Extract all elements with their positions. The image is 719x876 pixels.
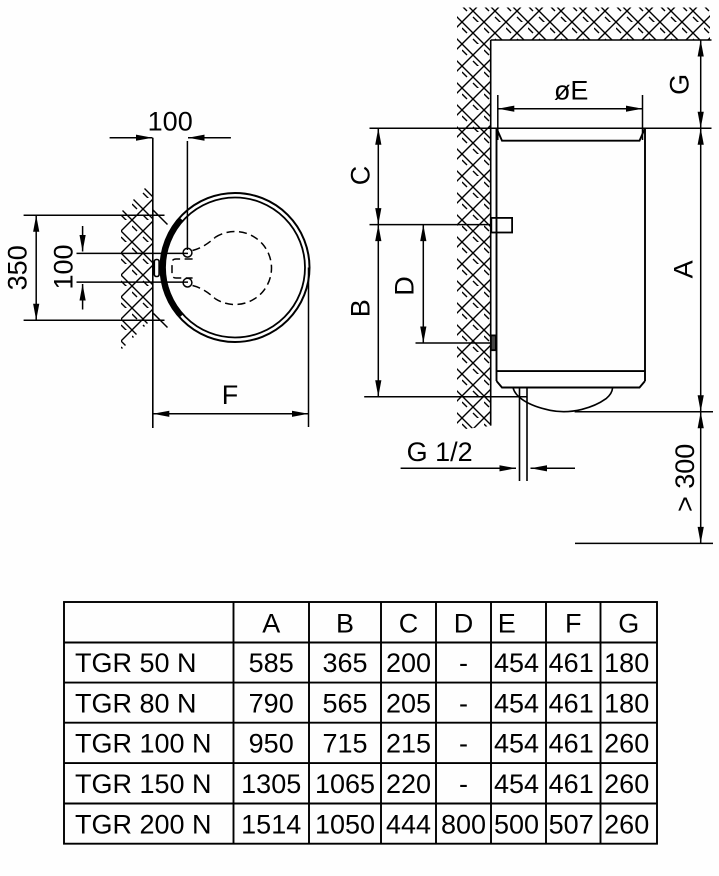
ceiling line: [491, 39, 712, 41]
svg-text:TGR 100 N: TGR 100 N: [75, 729, 212, 759]
svg-text:350: 350: [3, 245, 33, 290]
dimension >300: [670, 412, 701, 544]
dimension G: [665, 40, 701, 128]
svg-text:454: 454: [494, 688, 539, 718]
svg-text:100: 100: [148, 107, 193, 137]
svg-text:180: 180: [604, 688, 649, 718]
svg-text:260: 260: [604, 769, 649, 799]
floor line: [575, 542, 713, 544]
wall hatch (front view): [121, 180, 153, 350]
upper hook: [183, 248, 192, 257]
svg-text:1305: 1305: [241, 769, 301, 799]
dimension B: [346, 225, 379, 397]
upper fixing extension line: [370, 224, 492, 226]
dimension 100 (top, horizontal): [110, 107, 231, 251]
tank outer circle: [161, 193, 310, 342]
table row TGR 200 N: [75, 809, 649, 839]
dimension G 1/2: [401, 437, 575, 468]
svg-text:G: G: [665, 74, 695, 95]
svg-text:454: 454: [494, 729, 539, 759]
svg-text:B: B: [346, 299, 376, 317]
svg-text:790: 790: [249, 688, 294, 718]
outlet pipe: [520, 388, 528, 482]
hatch bleed strokes at fixing lines: [153, 210, 168, 328]
top extension line (heater top): [370, 127, 712, 129]
svg-text:461: 461: [549, 648, 594, 678]
svg-text:507: 507: [549, 809, 594, 839]
bottom dome: [513, 388, 613, 412]
svg-text:220: 220: [386, 769, 431, 799]
table row TGR 50 N: [75, 648, 649, 678]
svg-text:461: 461: [549, 729, 594, 759]
svg-text:A: A: [262, 609, 280, 639]
table row TGR 80 N: [75, 688, 649, 718]
dimension oE: [498, 76, 643, 141]
svg-text:TGR 80 N: TGR 80 N: [75, 688, 197, 718]
upper wall bracket: [491, 218, 512, 233]
B bottom extension line: [364, 396, 527, 398]
svg-text:G 1/2: G 1/2: [407, 437, 473, 467]
table outer border: [64, 602, 657, 844]
svg-text:585: 585: [249, 648, 294, 678]
svg-text:1514: 1514: [241, 809, 301, 839]
table vertical lines: [234, 602, 601, 844]
lower fixing extension line: [416, 342, 492, 344]
dimension 350 (vertical): [3, 215, 37, 320]
svg-text:365: 365: [322, 648, 367, 678]
dimension D: [390, 225, 424, 343]
heater lid: [497, 128, 646, 140]
wall plate: [154, 260, 159, 277]
svg-text:C: C: [346, 166, 376, 186]
svg-text:TGR 200 N: TGR 200 N: [75, 809, 212, 839]
extension lines 350: [24, 215, 165, 320]
svg-text:-: -: [459, 688, 468, 718]
svg-text:461: 461: [549, 769, 594, 799]
ceiling + wall hatch (L shape): [457, 8, 710, 431]
inner tank dashed keyhole: [193, 231, 272, 304]
svg-text:E: E: [498, 609, 516, 639]
svg-text:F: F: [222, 380, 239, 410]
svg-text:D: D: [454, 609, 474, 639]
svg-text:200: 200: [386, 648, 431, 678]
svg-text:565: 565: [322, 688, 367, 718]
lower hook: [183, 278, 192, 287]
dome bottom extension line: [575, 411, 713, 413]
svg-text:950: 950: [249, 729, 294, 759]
svg-text:800: 800: [441, 809, 486, 839]
dimension F: [153, 268, 309, 428]
dimension A: [669, 128, 701, 412]
svg-text:1065: 1065: [315, 769, 375, 799]
table row TGR 100 N: [75, 729, 649, 759]
svg-text:TGR 150 N: TGR 150 N: [75, 769, 212, 799]
heater bottom seam: [497, 370, 646, 372]
svg-text:-: -: [459, 729, 468, 759]
tank inner circle: [165, 198, 305, 338]
table horizontal lines: [64, 643, 657, 804]
svg-text:205: 205: [386, 688, 431, 718]
svg-text:-: -: [459, 769, 468, 799]
svg-text:D: D: [390, 276, 420, 296]
svg-text:F: F: [565, 609, 582, 639]
hanging bracket (dashed U): [172, 259, 193, 278]
svg-text:G: G: [618, 609, 639, 639]
svg-text:TGR 50 N: TGR 50 N: [75, 648, 197, 678]
svg-text:260: 260: [604, 729, 649, 759]
svg-text:454: 454: [494, 648, 539, 678]
wall line (front view): [152, 138, 154, 428]
svg-text:215: 215: [386, 729, 431, 759]
wall line (side view): [490, 40, 492, 426]
svg-text:øE: øE: [554, 76, 589, 106]
svg-text:-: -: [459, 648, 468, 678]
hook fixing lines: [77, 253, 189, 282]
svg-text:260: 260: [604, 809, 649, 839]
heater body sides: [497, 128, 646, 381]
svg-text:715: 715: [322, 729, 367, 759]
heater skirt: [497, 381, 646, 388]
svg-text:1050: 1050: [315, 809, 375, 839]
table header row: [262, 609, 639, 639]
svg-text:500: 500: [494, 809, 539, 839]
svg-text:C: C: [399, 609, 419, 639]
svg-text:461: 461: [549, 688, 594, 718]
svg-text:100: 100: [49, 244, 79, 289]
dimension 100 (left, vertical): [49, 226, 83, 310]
table row TGR 150 N: [75, 769, 649, 799]
lower wall bracket: [491, 335, 496, 350]
svg-text:A: A: [669, 260, 699, 278]
wall section behind tank rim (thick hatched arc): [163, 219, 182, 316]
dimension C: [346, 128, 379, 224]
svg-text:454: 454: [494, 769, 539, 799]
svg-text:180: 180: [604, 648, 649, 678]
svg-text:444: 444: [386, 809, 431, 839]
svg-text:B: B: [336, 609, 354, 639]
svg-text:> 300: > 300: [670, 444, 700, 512]
